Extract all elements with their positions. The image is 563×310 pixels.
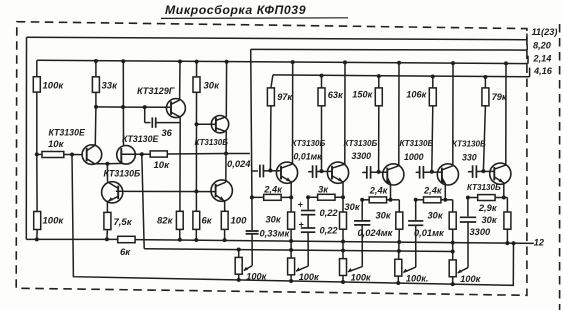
resistor R2 33к — [92, 77, 99, 93]
transistor Q5 КТ3130Б upper (current mirror) — [211, 116, 228, 133]
junction trimmer 4 on bottom bus — [396, 281, 400, 285]
junction 10к left on rail — [35, 152, 39, 156]
resistor 30к stage 1 — [288, 212, 295, 229]
svg-text:КТ3129Г: КТ3129Г — [137, 86, 175, 96]
svg-text:97к: 97к — [277, 92, 293, 102]
resistor R11 100к lower-left — [34, 212, 41, 230]
wire line-B drop from Q2 node — [142, 154, 144, 248]
svg-text:2,4к: 2,4к — [263, 185, 283, 195]
resistor R9 10к middle — [150, 151, 167, 157]
svg-text:3300: 3300 — [352, 151, 372, 161]
wire 30к-5 bottom to ground rail — [506, 229, 508, 243]
svg-text:+: + — [299, 219, 304, 229]
svg-text:+: + — [298, 200, 303, 210]
junction collector rail stage 4 — [451, 61, 455, 65]
junction Q2 emitter to 10к chain / line B tap — [140, 152, 144, 156]
wire Q4 base to Q5 base row — [116, 190, 216, 192]
resistor 2,9к emitter stage 5 — [478, 195, 495, 201]
capacitor C7 0,01мк stage 4 — [415, 200, 417, 220]
junction trimmer 2 on bottom bus — [289, 279, 293, 283]
resistor 30к stage 3 — [396, 212, 403, 229]
junction emitter node left stage 5 — [466, 196, 470, 200]
junction emitter node right stage 4 — [443, 198, 447, 202]
junction emitter node left stage 2 — [306, 195, 310, 199]
resistor R3 30к upper-left — [193, 77, 200, 92]
svg-text:КТ3130Б: КТ3130Б — [104, 168, 141, 178]
junction Q1/Q2 emitters — [105, 162, 109, 166]
wire ground rail to pin 12 (line A) — [26, 239, 534, 243]
junction bus 4,16 at 106к — [431, 75, 435, 79]
svg-text:30к: 30к — [345, 202, 361, 212]
capacitor C8 3300 stage 5 — [467, 198, 469, 217]
resistor 30к stage 5 — [504, 212, 511, 229]
transistor VT2 КТ3130Б stage 2 — [327, 162, 348, 183]
capacitor coupling into stage 3 — [362, 171, 367, 173]
junction collector rail stage 5 — [504, 61, 508, 65]
wire bus pin 8,20 — [251, 45, 528, 51]
transistor Q1 КТ3130Е left of input pair — [82, 145, 102, 165]
svg-text:3300: 3300 — [470, 227, 492, 237]
wire branch to base of Q5 КТ3130Б — [197, 123, 217, 125]
svg-text:3к: 3к — [318, 185, 329, 195]
junction emitter node left stage 1 — [250, 195, 254, 199]
svg-text:30к: 30к — [204, 81, 221, 92]
svg-text:КТ3130Б: КТ3130Б — [400, 139, 434, 148]
transistor Q4 КТ3130Б current source (mirrored) — [102, 182, 123, 203]
junction bottom bus to ground rail near pin 12 — [512, 241, 516, 245]
resistor R13 63к stage 2 — [318, 88, 325, 106]
junction base resistor tap stage 1 — [268, 169, 272, 173]
transistor Q2 КТ3130Е right of input pair — [117, 146, 136, 165]
resistor R10 6к in ground rail — [118, 236, 135, 242]
junction emitter node left stage 3 — [360, 198, 364, 202]
svg-text:10к: 10к — [48, 139, 65, 150]
junction on bus 2,14 at Q2 collector — [121, 59, 125, 63]
svg-text:0,024мк: 0,024мк — [358, 228, 394, 238]
resistor R15 106к stage 4 — [429, 88, 436, 106]
resistor R4 10к input — [42, 152, 64, 158]
svg-text:0,22: 0,22 — [320, 226, 339, 236]
svg-text:1000: 1000 — [404, 152, 424, 162]
junction Q5 emitter / Q6 collector / 10к node — [224, 152, 228, 156]
svg-text:100к: 100к — [43, 216, 65, 227]
resistor R7 6к vertical — [193, 211, 200, 229]
wire 30к-3 bottom through rails to trimmer R4 — [398, 229, 401, 259]
svg-text:63к: 63к — [328, 90, 344, 100]
svg-text:4,16: 4,16 — [533, 66, 553, 76]
junction 100к-2 bottom — [35, 237, 39, 241]
svg-text:100к: 100к — [299, 272, 320, 282]
wire input column from bus 8,20 — [251, 49, 252, 197]
resistor R16 79к stage 5 — [482, 88, 489, 106]
transistor VT1 КТ3130Б stage 1 — [276, 162, 297, 183]
transistor VT4 КТ3130Б stage 4 — [437, 164, 458, 185]
junction bus 4,16 at 150к — [377, 74, 381, 78]
svg-text:КТ3130Е: КТ3130Е — [49, 127, 86, 137]
trimmer 4 wiper arrow — [403, 267, 416, 272]
junction base resistor tap stage 3 — [377, 170, 381, 174]
svg-text:100к: 100к — [460, 274, 481, 284]
resistor 30к stage 4 — [449, 212, 456, 229]
svg-text:100к: 100к — [43, 81, 65, 92]
trimmer resistor R5 100к (stage 4) — [395, 259, 402, 276]
svg-text:106к: 106к — [406, 89, 427, 99]
wire bottom return bus — [72, 155, 514, 286]
junction collector rail stage 2 — [343, 60, 347, 64]
trimmer 5 wiper arrow — [458, 268, 468, 273]
junction emitter node right stage 1 — [289, 195, 293, 199]
svg-text:2,4к: 2,4к — [369, 185, 389, 195]
node wire 33к / Q2 collector / Q3 base — [96, 106, 170, 108]
resistor 2,4к emitter stage 1 — [264, 194, 281, 200]
wire bus pin 4,16 (base-resistor rail) — [273, 68, 530, 77]
junction emitter node right stage 5 — [502, 196, 506, 200]
transistor VT3 КТ3130Б stage 3 — [383, 164, 404, 185]
capacitor C3 0,33мк stage 1 — [251, 197, 253, 230]
svg-text:2,4к: 2,4к — [423, 185, 443, 195]
svg-text:100к.: 100к. — [406, 273, 429, 283]
resistor R12 97к stage 1 — [267, 88, 274, 106]
svg-text:12: 12 — [534, 238, 545, 248]
junction base resistor tap stage 4 — [430, 170, 434, 174]
resistor 2,4к emitter stage 3 — [369, 197, 386, 203]
svg-text:100к: 100к — [246, 272, 267, 282]
svg-text:100к: 100к — [351, 273, 372, 283]
wire Q3 emitter node down to 82к — [179, 123, 181, 212]
svg-text:33к: 33к — [102, 81, 119, 92]
wire bus1 left vertical drop to ground rail — [25, 37, 27, 239]
svg-text:2,9к: 2,9к — [478, 203, 498, 213]
svg-text:11(23): 11(23) — [532, 27, 558, 37]
capacitor C1 36 (feedback) — [144, 107, 146, 123]
capacitor coupling into stage 2 — [308, 171, 313, 173]
svg-text:0,33мк: 0,33мк — [260, 229, 291, 239]
junction Q3 base / feedback cap — [143, 105, 147, 109]
resistor R8 100 — [221, 211, 228, 229]
svg-text:36: 36 — [162, 128, 173, 138]
svg-text:8,20: 8,20 — [533, 41, 552, 51]
wire trimmer top rail (line B) — [144, 249, 453, 252]
svg-text:КТ3130Б: КТ3130Б — [467, 183, 501, 192]
resistor 3к emitter stage 2 — [318, 194, 335, 200]
svg-text:30к: 30к — [376, 211, 392, 221]
resistor R5 7,5к — [104, 212, 111, 229]
capacitor coupling into stage 5 — [468, 171, 473, 173]
svg-text:0,024: 0,024 — [227, 158, 251, 169]
wire bus pin 2,14 (collector rail) — [37, 56, 528, 64]
junction bus 4,16 at 79к — [483, 75, 487, 79]
svg-text:30к: 30к — [266, 215, 282, 225]
junction 6к-2 tap on base wire — [194, 189, 198, 193]
junction trimmer 5 on bottom bus — [451, 282, 455, 286]
svg-text:КТ3130Б: КТ3130Б — [344, 139, 378, 148]
junction base resistor tap stage 2 — [320, 169, 324, 173]
wire 30к-4 bottom through rails to trimmer R5 — [452, 229, 454, 260]
junction on bus 2,14 at Q5 collector — [225, 60, 229, 64]
resistor R6 82к — [176, 211, 183, 229]
svg-text:7,5к: 7,5к — [114, 217, 133, 228]
junction collector rail stage 1 — [291, 60, 295, 64]
junction bus 4,16 at 63к — [320, 74, 324, 78]
junction trimmer 1 on bottom bus — [237, 278, 241, 282]
capacitor C2 0,024 input coupling — [252, 170, 258, 172]
svg-text:100: 100 — [231, 216, 248, 227]
svg-text:6к: 6к — [202, 216, 213, 227]
svg-text:0,01мк: 0,01мк — [414, 228, 445, 238]
capacitor C6 0,024мк stage 3 — [361, 200, 363, 220]
wire 30к-1 bottom through rails to trimmer R2 — [290, 229, 292, 258]
junction 7,5к on ground rail — [105, 237, 109, 241]
resistor R14 150к stage 3 — [375, 88, 382, 106]
title underline — [161, 17, 348, 20]
junction 10к right / bottom-bus tap — [70, 153, 74, 157]
wire 30к-2 bottom through rails to trimmer R3 — [342, 229, 344, 258]
transistor VT5 КТ3130Б stage 5 — [490, 163, 511, 184]
svg-text:150к: 150к — [352, 89, 373, 99]
svg-text:0,22: 0,22 — [320, 208, 339, 218]
trimmer resistor R2 100к (stage 1) — [235, 257, 242, 274]
svg-text:0,01мк: 0,01мк — [294, 152, 323, 162]
svg-text:10к: 10к — [154, 160, 171, 171]
junction emitter node left stage 4 — [414, 198, 418, 202]
capacitor C5 0,22 stage 2 lower — [307, 215, 309, 228]
junction on bus 2,14 at 33к — [94, 59, 98, 63]
junction trimmer 3 on bottom bus — [341, 280, 345, 284]
junction on bus 2,14 at 30к — [195, 60, 199, 64]
trimmer resistor R6 100к (stage 5) — [449, 260, 456, 277]
svg-text:2,14: 2,14 — [533, 54, 552, 64]
capacitor coupling into stage 4 — [416, 171, 420, 173]
junction collector rail stage 3 — [397, 61, 401, 65]
junction emitter node right stage 2 — [341, 195, 345, 199]
junction base resistor tap stage 5 — [481, 169, 485, 173]
wire 30к bottom lead down to 6к column — [195, 92, 197, 211]
junction on bus 2,14 at Q3 collector — [178, 60, 182, 64]
svg-text:30к: 30к — [482, 215, 498, 225]
transistor Q6 КТ3130Б lower — [211, 180, 232, 201]
resistor R1 100к upper-left — [33, 77, 40, 92]
transistor Q3 КТ3129Г — [166, 99, 185, 118]
trimmer 3 wiper arrow — [348, 267, 362, 272]
trimmer resistor R4 100к (stage 3) — [340, 259, 347, 276]
svg-text:КТ3130Б: КТ3130Б — [452, 140, 486, 149]
svg-text:6к: 6к — [120, 247, 131, 258]
trimmer 1 wiper arrow — [244, 266, 253, 271]
wire joined emitters down to Q4 collector — [106, 164, 108, 182]
svg-text:КТ3130Б: КТ3130Б — [195, 138, 229, 147]
svg-text:Микросборка КФП039: Микросборка КФП039 — [165, 3, 306, 17]
junction emitter node right stage 3 — [389, 198, 393, 202]
svg-text:82к: 82к — [157, 216, 174, 227]
wire bus pin 11(23) — [27, 37, 527, 39]
resistor 2,4к emitter stage 4 — [424, 197, 441, 203]
svg-text:30к: 30к — [428, 211, 444, 221]
trimmer 2 wiper arrow — [296, 266, 308, 271]
resistor 30к stage 2 — [340, 212, 347, 229]
capacitor C4 0,22 stage 2 upper — [307, 197, 309, 209]
svg-text:330: 330 — [462, 152, 477, 162]
dashed divider line at far right — [559, 24, 561, 310]
junction Q4 collector on node wire — [121, 105, 125, 109]
wire node to input column — [226, 153, 250, 155]
trimmer resistor R3 100к (stage 2) — [288, 258, 295, 275]
svg-text:КТ3130Б: КТ3130Б — [292, 139, 326, 148]
svg-text:КТ3130Е: КТ3130Е — [122, 134, 159, 144]
